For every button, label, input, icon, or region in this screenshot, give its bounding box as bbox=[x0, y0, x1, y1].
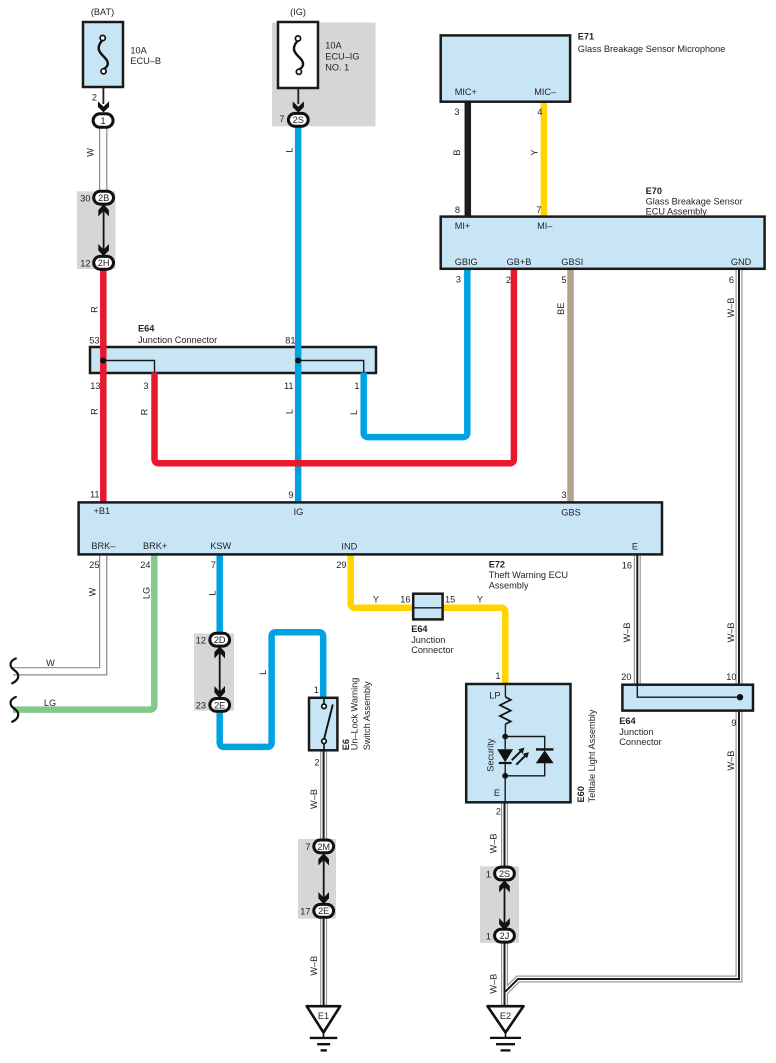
svg-text:3: 3 bbox=[454, 107, 459, 117]
svg-text:ECU–B: ECU–B bbox=[130, 56, 161, 66]
svg-text:10: 10 bbox=[726, 672, 736, 682]
svg-text:2: 2 bbox=[314, 758, 319, 768]
svg-text:12: 12 bbox=[196, 636, 206, 646]
svg-text:W–B: W–B bbox=[309, 789, 319, 809]
svg-text:25: 25 bbox=[89, 560, 99, 570]
svg-text:E70: E70 bbox=[646, 186, 662, 196]
svg-text:L: L bbox=[285, 409, 295, 414]
svg-text:Telltale Light Assembly: Telltale Light Assembly bbox=[587, 709, 597, 802]
svg-text:ECU Assembly: ECU Assembly bbox=[646, 207, 708, 217]
fuse ECU-IG NO.1 10A (IG) bbox=[278, 7, 360, 126]
wire LG (green, E72 BRK+ pin24 to pigtail) bbox=[13, 554, 154, 709]
svg-text:2: 2 bbox=[506, 275, 511, 285]
svg-text:R: R bbox=[90, 306, 100, 313]
svg-text:L: L bbox=[285, 147, 295, 152]
svg-text:16: 16 bbox=[400, 595, 410, 605]
svg-text:2S: 2S bbox=[293, 115, 304, 125]
switch E6 Un-Lock Warning Switch Assembly bbox=[309, 678, 372, 751]
svg-text:Switch Assembly: Switch Assembly bbox=[362, 681, 372, 750]
svg-text:GBSI: GBSI bbox=[561, 257, 583, 267]
svg-text:+B1: +B1 bbox=[94, 506, 111, 516]
svg-text:MIC–: MIC– bbox=[534, 87, 557, 97]
wire W-B (white, switch E6 pin2 through 2M/2E to ground E1) bbox=[309, 750, 324, 1006]
svg-text:BE: BE bbox=[556, 303, 566, 315]
svg-text:23: 23 bbox=[196, 701, 206, 711]
svg-text:BRK+: BRK+ bbox=[143, 541, 167, 551]
svg-text:Y: Y bbox=[373, 595, 379, 605]
svg-text:ECU–IG: ECU–IG bbox=[325, 52, 359, 62]
svg-text:MIC+: MIC+ bbox=[455, 87, 477, 97]
svg-text:2B: 2B bbox=[98, 193, 109, 203]
svg-text:1: 1 bbox=[314, 685, 319, 695]
connector 2M/2E (un-lock warning switch) bbox=[298, 839, 336, 919]
svg-text:E2: E2 bbox=[500, 1011, 511, 1021]
wire L (blue, E72 KSW pin7 to connector 2D) bbox=[208, 554, 220, 634]
svg-text:W–B: W–B bbox=[726, 622, 736, 642]
fuse ECU-B 10A (BAT) bbox=[83, 7, 161, 128]
svg-text:9: 9 bbox=[731, 718, 736, 728]
svg-text:17: 17 bbox=[300, 907, 310, 917]
svg-text:12: 12 bbox=[80, 258, 90, 268]
svg-text:Junction Connector: Junction Connector bbox=[138, 335, 217, 345]
svg-text:10A: 10A bbox=[325, 40, 342, 50]
svg-text:2M: 2M bbox=[317, 842, 330, 852]
connector 2D/2E (theft warning) bbox=[194, 633, 234, 711]
node E64 junction (red, pin 53/13/3) bbox=[100, 358, 155, 373]
svg-text:1: 1 bbox=[354, 381, 359, 391]
svg-text:Y: Y bbox=[530, 150, 540, 156]
ground E1 bbox=[307, 1006, 341, 1050]
svg-text:L: L bbox=[208, 590, 218, 595]
svg-text:IG: IG bbox=[294, 507, 304, 517]
svg-text:2E: 2E bbox=[318, 906, 329, 916]
component E71 Glass Breakage Sensor Microphone bbox=[441, 32, 726, 102]
wire W (white, E72 BRK- pin25 to pigtail) bbox=[13, 554, 103, 671]
svg-text:E64: E64 bbox=[619, 716, 636, 726]
svg-text:E: E bbox=[494, 788, 500, 798]
svg-text:2J: 2J bbox=[500, 931, 510, 941]
svg-text:2S: 2S bbox=[499, 869, 510, 879]
svg-text:3: 3 bbox=[456, 275, 461, 285]
svg-text:1: 1 bbox=[486, 869, 491, 879]
svg-text:1: 1 bbox=[101, 116, 106, 126]
svg-text:LP: LP bbox=[489, 690, 500, 700]
svg-text:1: 1 bbox=[495, 671, 500, 681]
svg-text:2: 2 bbox=[496, 807, 501, 817]
svg-text:MI+: MI+ bbox=[455, 221, 471, 231]
svg-text:W–B: W–B bbox=[622, 622, 632, 642]
svg-text:E60: E60 bbox=[576, 786, 586, 802]
svg-text:BRK–: BRK– bbox=[91, 541, 116, 551]
svg-text:W: W bbox=[46, 658, 55, 668]
svg-text:10A: 10A bbox=[130, 46, 147, 56]
svg-text:7: 7 bbox=[305, 842, 310, 852]
svg-text:(BAT): (BAT) bbox=[91, 7, 114, 17]
svg-text:8: 8 bbox=[455, 205, 460, 215]
svg-text:GB+B: GB+B bbox=[507, 257, 532, 267]
svg-text:2E: 2E bbox=[214, 700, 225, 710]
svg-text:(IG): (IG) bbox=[290, 7, 306, 17]
svg-text:7: 7 bbox=[279, 114, 284, 124]
svg-text:4: 4 bbox=[537, 107, 542, 117]
svg-text:E71: E71 bbox=[578, 32, 594, 42]
wire W-B (white, E60 E pin2 through 2S/2J to ground E2) bbox=[489, 269, 740, 1007]
svg-text:7: 7 bbox=[536, 205, 541, 215]
svg-text:W–B: W–B bbox=[309, 956, 319, 976]
wire Y (yellow, E72 IND pin29 through E64 16/15 to E60 LP pin1) bbox=[336, 554, 505, 685]
svg-text:E72: E72 bbox=[489, 560, 505, 570]
junction connector E64 (small, yellow IND wire) bbox=[411, 594, 453, 655]
svg-text:1: 1 bbox=[486, 932, 491, 942]
svg-text:Junction: Junction bbox=[411, 635, 445, 645]
svg-text:20: 20 bbox=[621, 672, 631, 682]
svg-text:MI–: MI– bbox=[537, 221, 553, 231]
svg-text:Un–Lock Warning: Un–Lock Warning bbox=[349, 678, 359, 751]
connector 2S/2J (telltale light) bbox=[480, 866, 519, 943]
svg-text:W: W bbox=[88, 587, 98, 596]
wire R (red branch, E64 pin3 to E70 GB+B pin2) bbox=[140, 269, 514, 463]
svg-text:15: 15 bbox=[445, 595, 455, 605]
svg-text:3: 3 bbox=[143, 381, 148, 391]
svg-text:Y: Y bbox=[477, 595, 483, 605]
wire B (black, E71 MIC+ pin3 to E70 MI+ pin8) bbox=[452, 102, 468, 217]
component E70 Glass Breakage Sensor ECU Assembly bbox=[441, 186, 765, 269]
svg-text:81: 81 bbox=[285, 336, 295, 346]
svg-text:B: B bbox=[452, 150, 462, 156]
svg-text:Junction: Junction bbox=[619, 727, 653, 737]
wire W-B (white, E70 GND pin6 down through E64 pin10/9 to ground E2 joint) bbox=[505, 269, 739, 992]
svg-text:3: 3 bbox=[561, 490, 566, 500]
svg-text:11: 11 bbox=[284, 381, 294, 391]
svg-text:L: L bbox=[258, 670, 268, 675]
svg-text:53: 53 bbox=[89, 336, 99, 346]
svg-text:2H: 2H bbox=[98, 258, 110, 268]
wire L (blue, IG fuse 2S through E64 pin81/11 to E72 pin9) bbox=[285, 126, 299, 503]
svg-text:2D: 2D bbox=[214, 635, 226, 645]
wire W-B (white, E72 E pin16 to E64 pin20) bbox=[621, 554, 637, 684]
svg-text:5: 5 bbox=[561, 275, 566, 285]
svg-text:Glass Breakage Sensor Micropho: Glass Breakage Sensor Microphone bbox=[578, 44, 726, 54]
svg-text:E1: E1 bbox=[318, 1011, 329, 1021]
svg-text:GBIG: GBIG bbox=[455, 257, 478, 267]
svg-text:Connector: Connector bbox=[619, 737, 661, 747]
svg-text:LG: LG bbox=[142, 587, 152, 599]
wire L (blue, connector 2E to switch E6 pin1) bbox=[220, 632, 324, 747]
svg-text:IND: IND bbox=[341, 542, 357, 552]
wire W (fuse ECU-B to connector 2B) bbox=[86, 127, 104, 192]
svg-text:GBS: GBS bbox=[561, 508, 580, 518]
svg-text:Connector: Connector bbox=[411, 645, 453, 655]
svg-text:6: 6 bbox=[729, 275, 734, 285]
svg-text:Theft Warning ECU: Theft Warning ECU bbox=[489, 570, 568, 580]
svg-text:E64: E64 bbox=[411, 624, 428, 634]
svg-text:16: 16 bbox=[622, 561, 632, 571]
svg-text:W–B: W–B bbox=[726, 298, 736, 318]
wire R (red, connector 2H through E64 pin53/13 to E72 pin11) bbox=[90, 269, 104, 503]
svg-text:7: 7 bbox=[211, 560, 216, 570]
junction connector E64 (top) box bbox=[89, 324, 376, 392]
fuse panel (IG) background bbox=[272, 23, 376, 127]
svg-text:E: E bbox=[632, 541, 638, 551]
pigtail break symbol (W wire) bbox=[11, 659, 19, 684]
svg-text:9: 9 bbox=[288, 490, 293, 500]
svg-text:L: L bbox=[349, 410, 359, 415]
component E60 Telltale Light Assembly (security indicator) bbox=[466, 684, 597, 803]
svg-text:Glass Breakage Sensor: Glass Breakage Sensor bbox=[646, 197, 743, 207]
svg-text:W: W bbox=[86, 148, 96, 157]
ground E2 bbox=[488, 1006, 524, 1050]
svg-text:R: R bbox=[90, 408, 100, 415]
node E64 junction (blue, pin 81/11/1) bbox=[295, 358, 364, 373]
pigtail break symbol (LG wire) bbox=[11, 697, 19, 722]
junction connector E64 (right, ground wires) bbox=[619, 685, 753, 747]
connector 2B/2H (instrument panel to engine wire) bbox=[77, 191, 116, 269]
svg-text:29: 29 bbox=[336, 560, 346, 570]
svg-text:2: 2 bbox=[92, 93, 97, 103]
svg-text:E64: E64 bbox=[138, 324, 155, 334]
svg-text:LG: LG bbox=[44, 698, 56, 708]
svg-text:W–B: W–B bbox=[489, 833, 499, 853]
svg-text:W–B: W–B bbox=[489, 974, 499, 994]
svg-text:Security: Security bbox=[486, 738, 496, 772]
svg-text:R: R bbox=[140, 408, 150, 415]
svg-text:Assembly: Assembly bbox=[489, 581, 529, 591]
wire Y (yellow, E71 MIC- pin4 to E70 MI- pin7) bbox=[530, 102, 544, 217]
svg-text:NO. 1: NO. 1 bbox=[325, 63, 349, 73]
component E72 Theft Warning ECU Assembly bbox=[79, 502, 662, 590]
svg-text:KSW: KSW bbox=[210, 541, 231, 551]
wire BE (beige, E70 GBSI pin5 to E72 GBS pin3) bbox=[556, 269, 571, 503]
svg-text:13: 13 bbox=[90, 381, 100, 391]
svg-text:W–B: W–B bbox=[726, 751, 736, 771]
svg-text:30: 30 bbox=[80, 194, 90, 204]
svg-text:24: 24 bbox=[140, 560, 150, 570]
svg-text:GND: GND bbox=[731, 257, 752, 267]
wire L (blue branch, E64 pin1 to E70 GBIG pin3) bbox=[349, 269, 467, 437]
svg-text:11: 11 bbox=[90, 490, 100, 500]
